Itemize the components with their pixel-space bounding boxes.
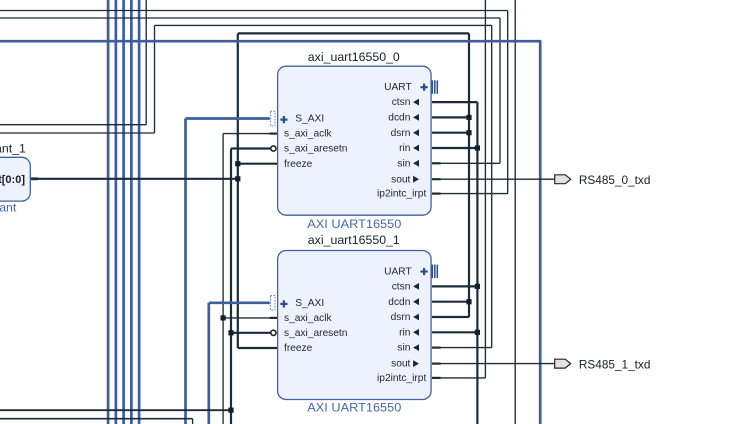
wire sin1 v491	[491, 25, 493, 347]
junction freeze0-const	[235, 161, 240, 166]
pin s_axi_aresetn (block 1)	[271, 330, 276, 335]
wire S_AXI_1 horizontal	[209, 301, 270, 304]
wire S_AXI_0 horizontal	[186, 117, 270, 120]
wire interface right vertical	[539, 41, 542, 424]
svg-text:ip2intc_irpt: ip2intc_irpt	[377, 373, 426, 384]
wire interface top horizontal	[0, 40, 541, 43]
wire aclk0 horizontal	[223, 133, 271, 135]
stub sout0	[432, 178, 441, 180]
junction aresetn1	[228, 330, 233, 335]
svg-text:dcdn: dcdn	[388, 297, 410, 308]
stub irpt1	[432, 377, 441, 379]
svg-text:UART: UART	[384, 266, 412, 277]
wire sin0 horizontal	[439, 162, 500, 164]
svg-text:s_axi_aresetn: s_axi_aresetn	[284, 144, 347, 155]
junction dcdn0-netA	[466, 115, 471, 120]
wire dcdn0	[432, 116, 469, 118]
wire aresetn vertical	[230, 149, 232, 424]
wire netB vertical	[476, 102, 478, 424]
wire rin1	[432, 331, 477, 333]
wire sin1 top horizontal	[155, 24, 492, 26]
junction dout-const	[235, 176, 240, 181]
wire netA top horizontal	[238, 32, 469, 34]
wire interface bus v3	[122, 0, 125, 424]
svg-text:ctsn: ctsn	[392, 97, 411, 108]
wire freeze0 horizontal	[238, 163, 278, 165]
junction aresetn-bottom	[228, 408, 233, 413]
svg-text:Constant: Constant	[0, 201, 17, 215]
stub sin0	[432, 162, 441, 164]
wire sout1 to port	[439, 363, 555, 365]
wire irpt0 horizontal	[439, 193, 508, 195]
svg-text:RS485_0_txd: RS485_0_txd	[579, 173, 651, 187]
wire dout horizontal	[30, 178, 238, 180]
wire netA vertical	[468, 33, 470, 317]
svg-text:UART: UART	[384, 82, 412, 93]
svg-text:s_axi_aresetn: s_axi_aresetn	[284, 328, 347, 339]
junction dsrn0-netA	[466, 130, 471, 135]
pin S_AXI (block 0)	[270, 111, 275, 125]
wire aclk1 horizontal	[223, 317, 271, 319]
port RS485_0_txd	[555, 173, 651, 187]
IP block xlconstant_1 (clipped at left edge)	[0, 142, 30, 215]
stub sin1	[432, 347, 441, 349]
svg-text:ip2intc_irpt: ip2intc_irpt	[377, 189, 426, 200]
stub irpt0	[432, 193, 441, 195]
svg-text:S_AXI: S_AXI	[295, 298, 324, 309]
wire sin1 h133	[0, 132, 155, 134]
wire const vertical	[237, 33, 239, 348]
wire ext v146	[145, 0, 147, 125]
svg-text:axi_uart16550_0: axi_uart16550_0	[308, 50, 400, 64]
junction dcdn1-netA	[466, 299, 471, 304]
wire ext h124	[0, 124, 146, 126]
svg-text:rin: rin	[399, 143, 410, 154]
wire aclk vertical	[222, 134, 224, 424]
junction ctsn1-netB	[475, 284, 480, 289]
wire irpt0 top horizontal	[0, 10, 508, 12]
svg-text:S_AXI: S_AXI	[295, 114, 324, 125]
svg-text:rin: rin	[399, 327, 410, 338]
stub dout	[30, 177, 38, 180]
pin s_axi_aresetn (block 0)	[271, 146, 276, 151]
wire aresetn1 horizontal	[231, 332, 270, 334]
pin S_AXI (block 1)	[270, 296, 275, 310]
svg-text:freeze: freeze	[284, 159, 313, 170]
IP block axi_uart16550_1	[270, 233, 437, 414]
svg-text:dcdn: dcdn	[388, 113, 410, 124]
svg-text:RS485_1_txd: RS485_1_txd	[579, 358, 651, 372]
BLUE_VERTICALS	[108, 0, 540, 424]
svg-text:dsrn: dsrn	[391, 312, 411, 323]
wire irpt nets v485	[484, 0, 486, 378]
wire sin1 horizontal	[439, 347, 492, 349]
wire interface bus v1	[107, 0, 110, 424]
svg-text:sout: sout	[391, 174, 410, 185]
wire S_AXI_1 vertical	[207, 303, 210, 424]
svg-text:s_axi_aclk: s_axi_aclk	[284, 313, 332, 324]
wire interface bus v2	[114, 0, 117, 424]
svg-text:freeze: freeze	[284, 343, 313, 354]
stub aclk1	[270, 317, 278, 319]
svg-text:ctsn: ctsn	[392, 282, 411, 293]
BLUE_HORIZONTALS	[0, 41, 541, 303]
wire sin1 v154	[154, 25, 156, 133]
wire thru v515	[514, 0, 516, 424]
svg-text:dout[0:0]: dout[0:0]	[0, 174, 25, 186]
svg-text:axi_uart16550_1: axi_uart16550_1	[308, 233, 400, 247]
junction aclk1	[221, 315, 226, 320]
port RS485_1_txd	[555, 358, 651, 372]
wire sin0 v500	[499, 18, 501, 163]
svg-text:sin: sin	[397, 343, 410, 354]
DARK_WIRES	[0, 0, 555, 424]
junction rin1-netB	[475, 330, 480, 335]
junction rin0-netB	[475, 145, 480, 150]
wire ctsn1	[432, 285, 477, 287]
wire bottom h418	[0, 418, 193, 420]
stub aclk0	[270, 133, 278, 135]
wire bottom aresetn horizontal	[0, 409, 231, 411]
svg-text:s_axi_aclk: s_axi_aclk	[284, 129, 332, 140]
wire ctsn0	[432, 101, 477, 103]
svg-text:dsrn: dsrn	[391, 128, 411, 139]
svg-text:sout: sout	[391, 359, 410, 370]
wire interface bus v5	[138, 0, 141, 424]
IP block axi_uart16550_0	[270, 50, 437, 231]
wire bottom v192	[192, 419, 194, 424]
svg-text:AXI UART16550: AXI UART16550	[307, 400, 401, 414]
wire S_AXI_0 vertical	[184, 119, 187, 424]
wire freeze1 horizontal	[238, 347, 278, 349]
wire dsrn0	[432, 132, 469, 134]
wire sin0 top horizontal	[0, 17, 500, 19]
svg-text:AXI UART16550: AXI UART16550	[307, 217, 401, 231]
wire rin0	[432, 147, 477, 149]
wire interface bus v4	[130, 0, 133, 424]
JUNCTIONS	[221, 115, 481, 413]
wire aresetn0 horizontal	[231, 147, 270, 149]
stub sout1	[432, 363, 441, 365]
svg-text:sin: sin	[397, 158, 410, 169]
svg-text:xlconstant_1: xlconstant_1	[0, 142, 26, 156]
wire sout0 to port	[439, 178, 555, 180]
wire irpt0 v507	[507, 11, 509, 194]
wire irpt1 horizontal	[439, 377, 485, 379]
wire dcdn1	[432, 301, 469, 303]
wire dsrn1	[432, 316, 469, 318]
